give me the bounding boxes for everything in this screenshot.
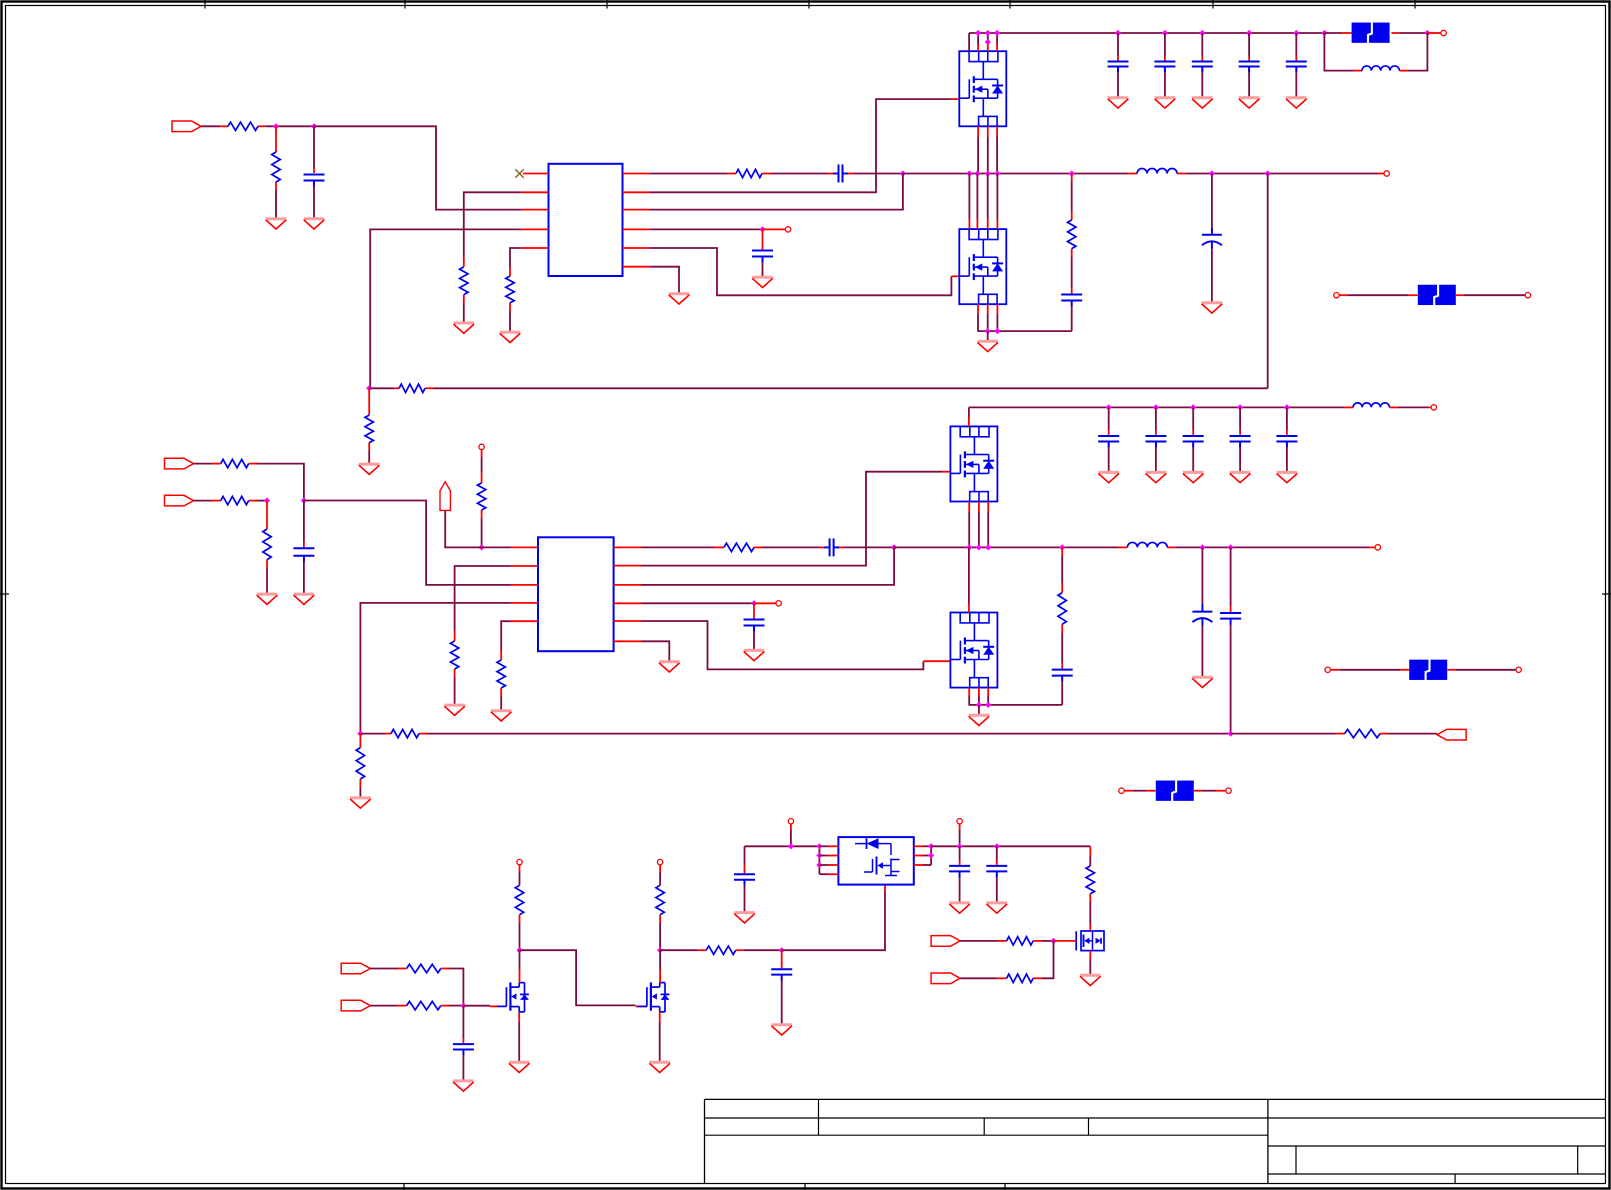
junction Q7 gate node (1050, 938, 1056, 944)
junction VIN2 cap2 (1153, 404, 1159, 410)
wire R17 to C14 (1061, 633, 1063, 663)
resistor R10 pins (212, 463, 257, 465)
wire R20 to gnd (359, 787, 361, 797)
terminal VPULL2 (657, 859, 662, 864)
pin Q4 drain stub (968, 547, 970, 612)
capacitor C7 (1154, 62, 1175, 73)
resistor R12 (263, 529, 271, 560)
wire SW2 to R17 (1061, 556, 1063, 583)
pin VOUT1 stub (1378, 173, 1384, 175)
ground G28 (1277, 472, 1298, 482)
resistor R23 pins (519, 865, 521, 923)
ground G36 (1080, 975, 1101, 985)
wire C8 to gnd (1201, 72, 1203, 97)
ferrite bead FB4 pins (1124, 790, 1225, 792)
junction U3 out1 (928, 843, 934, 849)
junction VIN1 bead out (1424, 30, 1430, 36)
capacitor C1 pins (313, 168, 315, 187)
pin U1-6 right (623, 266, 651, 268)
pin U3-2 left (819, 855, 838, 857)
pin U1-2 left (521, 191, 549, 193)
wire U3 vin drop (790, 824, 792, 846)
wire R6 to C4 (1071, 257, 1073, 288)
resistor R13 (477, 483, 485, 510)
wire P2 to R10 (193, 463, 212, 465)
wire U1 boot to R5 (650, 173, 727, 175)
capacitor C17 (1098, 436, 1119, 448)
wire node to C11 (303, 501, 305, 543)
junction VIN1 cap5 (1293, 30, 1299, 36)
ground G13 (1239, 98, 1260, 108)
ground G35 (987, 903, 1008, 913)
junction VIN2 cap3 (1190, 404, 1196, 410)
wire R21 to node (449, 969, 463, 1006)
terminal VPULL1 (517, 859, 522, 864)
wire R3 to gnd (463, 303, 465, 322)
junction node A1 (273, 123, 279, 129)
pin U1-5 right (623, 247, 651, 249)
capacitor C10 pins (1295, 56, 1297, 72)
transistor Q3 high-side (950, 426, 997, 501)
wire C4 to PGND1 (1071, 306, 1073, 331)
wire C18 to gnd (1155, 447, 1157, 472)
wire VIN1 to C6 (1117, 33, 1119, 56)
junction SW1-7 (1265, 170, 1271, 176)
wire U2 pin4 to FB2 node (360, 603, 510, 734)
wire SW2 rail (894, 546, 1369, 548)
junction EN2 node (479, 544, 485, 550)
wire R5 to C2 (771, 173, 828, 175)
pin U3-1 left (819, 845, 838, 847)
wire TP2 stub (754, 602, 776, 604)
resistor R15 pins (500, 650, 502, 696)
pin U2-3 right (614, 584, 641, 586)
capacitor C3 pins (762, 229, 764, 263)
resistor R17 pins (1061, 547, 1063, 633)
capacitor C15 (1192, 605, 1212, 626)
port P4 input (341, 963, 370, 974)
wire R7 to VOUT1 (433, 387, 1268, 389)
resistor R18 pins (385, 733, 427, 735)
transistor Q5 (497, 982, 529, 1012)
capacitor C12 boot (824, 538, 839, 556)
terminal T3a (1119, 788, 1124, 793)
pin U2-1 right (614, 546, 641, 548)
resistor R2 pins (275, 126, 277, 190)
capacitor C22 (453, 1044, 474, 1056)
capacitor C1 (304, 175, 325, 187)
ic U1 buck controller (549, 164, 623, 276)
pin U2-1 left (511, 546, 539, 548)
capacitor C13 (744, 620, 765, 632)
junction SW1-1 (966, 170, 972, 176)
wire P6 to R27 (960, 940, 997, 942)
ground G10 (1108, 98, 1129, 108)
capacitor C3 (752, 251, 773, 263)
ground G8 (1202, 303, 1223, 313)
transistor Q7 (1076, 931, 1104, 951)
ground G29 (453, 1081, 474, 1091)
junction SW2-a (891, 544, 897, 550)
capacitor C19 (1183, 436, 1204, 448)
pin U2-5 left (511, 620, 539, 622)
inductor L3 (1127, 542, 1167, 547)
wire R10 to node (257, 464, 304, 501)
pin U3 bottom (884, 885, 886, 892)
wire R12 to gnd (266, 568, 268, 593)
wire R16 to C12 (762, 546, 819, 548)
ferrite bead FB3 (1409, 659, 1447, 681)
capacitor C11 pins (303, 542, 305, 562)
capacitor C16 (1220, 613, 1241, 625)
wire L4 to terminal (1398, 406, 1431, 408)
resistor R26 (1086, 866, 1094, 894)
capacitor C2 boot (833, 165, 848, 183)
port P3 input (165, 495, 194, 506)
wire R14 to gnd (454, 677, 456, 704)
inductor L1 pins (1128, 173, 1186, 175)
ground G11 (1155, 98, 1176, 108)
pin Q4 gate (923, 660, 950, 662)
junction SW2-6 (1228, 544, 1234, 550)
inductor L2 (1362, 66, 1399, 71)
capacitor C2 pins (828, 173, 853, 175)
wire PGND2 rail (969, 704, 1063, 706)
pin Q1 drain stubs (969, 33, 997, 51)
resistor R8 (365, 415, 373, 443)
wire R1 to node (266, 125, 314, 127)
capacitor C20 (1230, 436, 1251, 448)
wire U2 pin3 to SW2 (641, 547, 894, 585)
pin U1-2 right (623, 191, 651, 193)
wire C26 conn (996, 846, 998, 860)
resistor R7 (399, 384, 425, 392)
junction VIN1-4 (985, 39, 991, 45)
resistor R5 (736, 169, 762, 177)
pin U3-1 right (914, 845, 931, 847)
ground G9 (359, 464, 380, 474)
wire VOUT2 to C16 (1230, 547, 1232, 606)
junction VIN2 cap5 (1284, 404, 1290, 410)
junction PGND1-1 (985, 328, 991, 334)
junction SW1-2 (974, 170, 980, 176)
wire P7 to R28 (960, 977, 997, 979)
resistor R27 pins (997, 940, 1042, 942)
resistor R6 (1068, 220, 1076, 249)
junction U3 bus2 (816, 852, 822, 858)
ground G26 (1183, 472, 1204, 482)
junction VIN1-3 (994, 30, 1000, 36)
wire U2 drv2 to Q4 gate (641, 621, 923, 669)
ferrite bead FB2 pins (1339, 294, 1525, 296)
no-connect X on U1 pin1 (515, 169, 523, 177)
terminal VIN2F (1431, 405, 1436, 410)
capacitor C24 pins (744, 846, 746, 885)
capacitor C18 pins (1155, 430, 1157, 447)
wire R19 to port (1388, 733, 1437, 735)
wire U2 drv to Q3 gate (641, 472, 942, 566)
pin Q6 drain (659, 950, 661, 982)
resistor R19 (1345, 729, 1380, 737)
junction gate Q5 node (460, 1003, 466, 1009)
wire U2 pin2 to R14 (455, 566, 511, 631)
resistor R28 (1007, 974, 1034, 982)
junction Q5 drain node (516, 947, 522, 953)
pin U2-2 left (511, 565, 539, 567)
pin Q7 source (1089, 951, 1091, 975)
junction node B1 (264, 497, 270, 503)
wire R18 to C16 node (427, 733, 1231, 735)
wire R11 to node (257, 500, 267, 502)
junction SW2-2 (976, 544, 982, 550)
junction Q6 drain node (657, 947, 663, 953)
resistor R28 pins (997, 977, 1042, 979)
terminal TP2 (776, 601, 781, 606)
ground G33 (734, 913, 755, 923)
inductor L4 pins (1344, 406, 1398, 408)
ground G32 (771, 1025, 792, 1035)
pin U2-2 right (614, 565, 641, 567)
ground G19 (744, 650, 765, 660)
resistor R24 (656, 885, 664, 914)
wire U1 pin2 to R3 (464, 192, 521, 257)
junction C23 node (779, 947, 785, 953)
ground G14 (1286, 98, 1307, 108)
terminal T3b (1226, 788, 1231, 793)
capacitor C7 pins (1164, 56, 1166, 72)
capacitor C19 pins (1192, 430, 1194, 447)
pin Q5 drain (519, 950, 521, 982)
pin U2-4 left (511, 602, 539, 604)
wire C20 to gnd (1239, 447, 1241, 472)
wire Q6 node to R25 (660, 949, 697, 951)
wire VIN1 to C9 (1248, 33, 1250, 56)
ferrite bead FB1 (1352, 22, 1390, 44)
resistor R25 pins (697, 949, 744, 951)
wire FB1 node to R7 (369, 387, 393, 389)
resistor R22 (407, 1001, 441, 1009)
terminal T1a (1334, 293, 1339, 298)
port P2 input (165, 458, 194, 469)
wire SW1 to R6 (1071, 182, 1073, 211)
pin Q4 source stubs (969, 688, 988, 705)
ground G21 power (969, 715, 990, 725)
wire PGND1 gnd stub (987, 331, 989, 341)
terminal EN2 pullup (479, 444, 484, 449)
wire U1 drv to Q1 gate (650, 99, 951, 192)
junction PGND2-1 (976, 702, 982, 708)
junction VIN1 bead in (1321, 30, 1327, 36)
capacitor C10 (1286, 62, 1307, 73)
capacitor C12 pins (819, 546, 844, 548)
wire C25 to gnd (959, 877, 961, 902)
junction VIN1-2 (985, 30, 991, 36)
ferrite bead FB3 pins (1331, 669, 1516, 671)
junction U3 in node (788, 843, 794, 849)
resistor R20 (356, 748, 364, 779)
junction SW1-6 (1209, 170, 1215, 176)
resistor R21 (407, 964, 441, 972)
wire bead bypass right (1408, 33, 1427, 71)
ic U2 buck controller (538, 537, 614, 651)
wire VIN2 to C21 (1286, 407, 1288, 430)
terminal VINF (1441, 30, 1446, 35)
terminal VOUT1 (1384, 171, 1389, 176)
junction VIN1 cap4 (1246, 30, 1252, 36)
resistor R2 (272, 152, 280, 182)
wire C12 to SW2 (844, 546, 894, 548)
capacitor C4 pins (1071, 288, 1073, 306)
pin Q2 drain stubs (969, 174, 997, 230)
resistor R4 pins (509, 267, 511, 311)
resistor R12 pins (266, 501, 268, 569)
junction TP1 node (759, 226, 765, 232)
capacitor C6 pins (1117, 56, 1119, 72)
wire R13 to EN2 node (481, 519, 483, 548)
wire VIN1 to C7 (1164, 33, 1166, 56)
pin U1-4 right (623, 228, 651, 230)
ground G22 (1192, 677, 1213, 687)
capacitor C6 (1108, 62, 1129, 73)
wire R15 to gnd (500, 696, 502, 710)
resistor R19 pins (1335, 733, 1388, 735)
pin U1-4 left (521, 228, 549, 230)
wire C23 node to U3 (782, 892, 885, 950)
junction PGND1-2 (994, 328, 1000, 334)
resistor R25 (706, 946, 735, 954)
pin U2-5 right (614, 620, 641, 622)
resistor R8 pins (368, 388, 370, 451)
capacitor C18 (1145, 436, 1166, 448)
junction U3 out4 (994, 843, 1000, 849)
pin Q7 gate (1054, 940, 1077, 942)
terminal U3 VIN (788, 819, 793, 824)
wire C6 to gnd (1117, 72, 1119, 97)
junction SW2-5 (1199, 544, 1205, 550)
wire C23 to gnd (781, 981, 783, 1024)
capacitor C11 (293, 548, 314, 562)
wire node to Q5 gate (463, 1005, 490, 1007)
resistor R6 pins (1071, 174, 1073, 258)
wire EN2 node to U2 pin1 (482, 546, 511, 548)
resistor R21 pins (398, 968, 449, 970)
terminal TP1 (785, 227, 790, 232)
wire R23 to Q5 drain node (519, 923, 521, 950)
ground G5 (752, 277, 773, 287)
junction SW2-4 (1059, 544, 1065, 550)
wire R27 to gate node (1042, 940, 1054, 942)
resistor R3 pins (463, 258, 465, 303)
wire VIN2 to C19 (1192, 407, 1194, 430)
ground G7 power (977, 341, 998, 351)
wire U3 right bus (930, 846, 932, 865)
wire P5 to R22 (370, 1005, 398, 1007)
wire R24 to Q6 drain node (659, 923, 661, 950)
pin U1-1 left (523, 173, 549, 175)
wire U1 drv2 to Q2 gate (650, 248, 951, 295)
wire U2 pin6 to gnd (641, 641, 669, 661)
wire flag to EN2 node (445, 510, 481, 547)
wire R28 to gate node (1042, 941, 1054, 978)
wire P3 to R11 (193, 500, 212, 502)
terminal VOUT2 (1375, 545, 1380, 550)
pin U2-4 right (614, 602, 641, 604)
wire U2 pin5 to R15 (501, 621, 510, 650)
wire node to C1 (313, 126, 315, 168)
wire U1 pin5 to R4 (510, 248, 521, 267)
pin U1-3 left (521, 209, 549, 211)
title block (705, 1099, 1606, 1183)
wire C7 to gnd (1164, 72, 1166, 97)
ground G25 (1146, 472, 1167, 482)
pin Q6 gate (636, 1005, 647, 1007)
resistor R20 pins (359, 734, 361, 788)
wire U3 rail left (745, 845, 820, 847)
capacitor C8 pins (1201, 56, 1203, 72)
ground G1 (266, 219, 287, 229)
junction U3 out2 (928, 852, 934, 858)
inductor L4 (1353, 403, 1389, 408)
pin U3-3 left (819, 864, 838, 866)
resistor R11 (221, 496, 249, 504)
capacitor C17 pins (1108, 430, 1110, 447)
resistor R13 pins (481, 450, 483, 519)
power flag VCC2 (440, 482, 450, 511)
resistor R18 (391, 729, 419, 737)
resistor R26 pins (1089, 846, 1091, 902)
transistor Q6 (638, 982, 670, 1012)
wire VOUT1 to C5 (1211, 174, 1213, 230)
pin Q2 gate (951, 275, 959, 277)
ground G27 (1230, 472, 1251, 482)
resistor R3 (460, 267, 468, 295)
pin Q3 drain stub (968, 407, 970, 426)
wire PGND2 gnd stub (978, 705, 980, 715)
resistor R24 pins (659, 865, 661, 923)
pin Q3 gate (942, 471, 950, 473)
pin Q5 gate (490, 1005, 497, 1007)
terminal T2b (1516, 667, 1521, 672)
junction SW1-4 (994, 170, 1000, 176)
port P5 input (341, 1000, 370, 1011)
pin U1-5 left (521, 247, 549, 249)
resistor R23 (515, 885, 523, 914)
pin U3-3 right (914, 864, 931, 866)
resistor R7 pins (394, 387, 434, 389)
ic U3 load switch (838, 837, 913, 885)
wire R2 to gnd (275, 190, 277, 218)
transistor Q2 low-side (959, 229, 1006, 304)
junction VIN1 cap1 (1115, 30, 1121, 36)
wire bead bypass left (1324, 33, 1353, 71)
wire Q5 to Q6 gate (520, 950, 636, 1005)
resistor R1 (228, 122, 258, 130)
wire P1 to R1 (201, 125, 220, 127)
ground G31 (649, 1062, 670, 1072)
pin U1-1 right (623, 173, 651, 175)
resistor R11 pins (212, 500, 257, 502)
resistor R16 pins (714, 546, 762, 548)
wire C3 to gnd (762, 263, 764, 277)
wire C21 to gnd (1286, 447, 1288, 472)
pin U3-4 left (819, 873, 838, 875)
junction U3 bus3 (816, 862, 822, 868)
inductor L3 pins (1118, 546, 1176, 548)
wire node to C22 (462, 1006, 464, 1038)
junction VIN1 cap2 (1162, 30, 1168, 36)
wire C17 to gnd (1108, 447, 1110, 472)
wire C5 to gnd (1211, 250, 1213, 302)
